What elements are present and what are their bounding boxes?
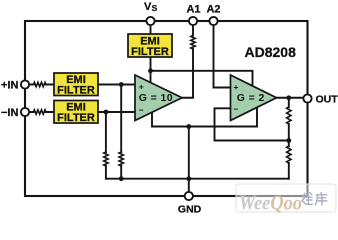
svg-text:G = 10: G = 10: [139, 92, 173, 104]
svg-text:S: S: [152, 3, 158, 13]
svg-text:FILTER: FILTER: [57, 112, 95, 124]
svg-text:G = 2: G = 2: [237, 92, 265, 104]
svg-text:AD8208: AD8208: [245, 44, 297, 60]
svg-text:OUT: OUT: [316, 94, 338, 106]
svg-text:+IN: +IN: [1, 80, 18, 92]
svg-text:+: +: [139, 82, 144, 92]
svg-text:A2: A2: [206, 4, 220, 16]
svg-text:−: −: [139, 105, 144, 115]
svg-text:FILTER: FILTER: [57, 85, 95, 97]
svg-text:−: −: [234, 104, 239, 114]
svg-text:−IN: −IN: [1, 107, 18, 119]
svg-text:A1: A1: [186, 4, 200, 16]
svg-text:GND: GND: [178, 203, 202, 215]
svg-text:FILTER: FILTER: [131, 46, 169, 58]
svg-text:WeeQoo: WeeQoo: [239, 191, 302, 215]
svg-text:+: +: [234, 82, 239, 92]
